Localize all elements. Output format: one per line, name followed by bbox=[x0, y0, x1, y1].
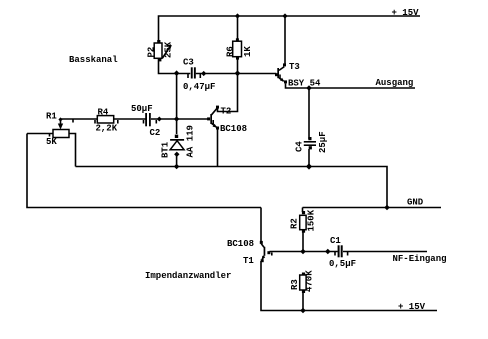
node base-C1 bbox=[325, 249, 331, 255]
wire T1 collector riser bbox=[260, 208, 262, 243]
wire C2 right to T2 base bbox=[151, 118, 208, 120]
node R6-T2-T3 junction bbox=[235, 70, 241, 76]
svg-text:GND: GND bbox=[407, 198, 424, 208]
node C3 right bbox=[201, 71, 206, 76]
capacitor C3 0,47uF bbox=[183, 58, 215, 93]
svg-text:T3: T3 bbox=[289, 62, 300, 72]
label Ausgang bbox=[376, 78, 414, 88]
node diode-line bbox=[174, 164, 180, 170]
svg-text:BC108: BC108 bbox=[220, 124, 247, 134]
svg-text:150K: 150K bbox=[307, 209, 317, 231]
capacitor C2 50uF bbox=[131, 104, 160, 138]
svg-text:R6: R6 bbox=[226, 46, 236, 57]
wire long mid line to GND corner bbox=[76, 167, 388, 208]
svg-text:P2: P2 bbox=[147, 47, 157, 58]
wire top +15V rail bbox=[159, 16, 421, 42]
label GND bbox=[407, 198, 424, 208]
svg-text:2,2K: 2,2K bbox=[96, 124, 118, 134]
svg-text:25µF: 25µF bbox=[318, 131, 328, 153]
wire C3 node down to signal line bbox=[176, 74, 178, 120]
svg-text:NF-Eingang: NF-Eingang bbox=[393, 254, 447, 264]
label Basskanal bbox=[69, 55, 118, 65]
svg-text:470K: 470K bbox=[305, 270, 315, 292]
wire diode bottom bbox=[176, 155, 178, 167]
node signal-diode junction bbox=[174, 116, 179, 121]
wire R1 right down bbox=[69, 134, 76, 167]
resistor R4 2,2K bbox=[95, 108, 118, 134]
svg-text:Ausgang: Ausgang bbox=[376, 78, 414, 88]
svg-text:1K: 1K bbox=[243, 46, 253, 57]
svg-text:C2: C2 bbox=[150, 128, 161, 138]
svg-text:25K: 25K bbox=[164, 41, 174, 58]
svg-text:+ 15V: + 15V bbox=[392, 8, 420, 18]
svg-text:BSY 54: BSY 54 bbox=[288, 79, 321, 89]
node Ausgang-C4 bbox=[306, 85, 312, 91]
wire C1 right to NF bbox=[343, 251, 427, 253]
wire T1 base line bbox=[270, 251, 338, 253]
wire P2 bottom to node line bbox=[159, 59, 191, 74]
wire T1 emitter to bottom rail bbox=[261, 261, 437, 311]
transistor T2 bbox=[207, 106, 247, 134]
wire T2 emitter down bbox=[217, 129, 219, 167]
wire GND line bbox=[303, 207, 442, 209]
transistor T1 bbox=[227, 239, 272, 266]
svg-text:C3: C3 bbox=[183, 58, 194, 68]
svg-text:C1: C1 bbox=[330, 236, 341, 246]
transistor T3 bbox=[275, 62, 321, 89]
wire loop left bbox=[27, 134, 261, 208]
svg-text:0,5µF: 0,5µF bbox=[329, 259, 356, 269]
capacitor C4 25uF bbox=[295, 88, 329, 167]
resistor R2 150K bbox=[290, 208, 317, 252]
node rail-R6 bbox=[235, 13, 240, 18]
svg-text:Basskanal: Basskanal bbox=[69, 55, 118, 65]
label NF-Eingang bbox=[393, 254, 447, 264]
wire T3 emitter to Ausgang bbox=[286, 84, 416, 89]
svg-text:AA 119: AA 119 bbox=[186, 125, 196, 157]
potentiometer R1 5K bbox=[46, 112, 73, 148]
node base-R2R3 bbox=[300, 249, 306, 255]
svg-text:R1: R1 bbox=[46, 112, 57, 122]
wire R6 bottom bbox=[237, 58, 239, 74]
capacitor C1 0,5uF bbox=[329, 236, 356, 269]
wire R6 top drop bbox=[237, 16, 239, 41]
label Impendanzwandler bbox=[145, 271, 231, 281]
svg-text:T1: T1 bbox=[243, 256, 254, 266]
svg-text:C4: C4 bbox=[295, 141, 305, 152]
wire signal line bbox=[61, 118, 146, 120]
resistor R6 1K bbox=[226, 38, 254, 59]
node C3 left bbox=[174, 70, 180, 76]
node rail-T3 bbox=[282, 13, 287, 18]
node C2 right bbox=[157, 117, 162, 122]
svg-text:R4: R4 bbox=[98, 108, 109, 118]
svg-text:BT1: BT1 bbox=[161, 141, 171, 158]
node R1 wiper bbox=[58, 117, 62, 121]
svg-text:BC108: BC108 bbox=[227, 239, 254, 249]
wire R1 left to loop bbox=[27, 133, 53, 135]
svg-text:R3: R3 bbox=[290, 279, 300, 290]
resistor R3 470K bbox=[290, 270, 315, 311]
node mid-C4 bbox=[306, 163, 312, 169]
diode BT1 AA119 bbox=[161, 125, 196, 158]
svg-text:5K: 5K bbox=[46, 137, 57, 147]
label +15V top bbox=[392, 8, 420, 18]
node rail-R3 bbox=[300, 308, 306, 314]
wire T2 collector to junction bbox=[218, 74, 238, 112]
node GND-corner bbox=[384, 205, 390, 211]
wire T3 collector riser bbox=[284, 16, 286, 64]
svg-text:+ 15V: + 15V bbox=[398, 302, 426, 312]
svg-text:50µF: 50µF bbox=[131, 104, 153, 114]
svg-text:R2: R2 bbox=[290, 218, 300, 229]
svg-text:Impendanzwandler: Impendanzwandler bbox=[145, 271, 231, 281]
svg-text:0,47µF: 0,47µF bbox=[183, 82, 215, 92]
potentiometer P2 bbox=[147, 40, 174, 61]
label +15V bottom bbox=[398, 302, 426, 312]
wire C3 right to T3 base bbox=[196, 73, 276, 75]
wire diode branch upper bbox=[176, 119, 178, 134]
